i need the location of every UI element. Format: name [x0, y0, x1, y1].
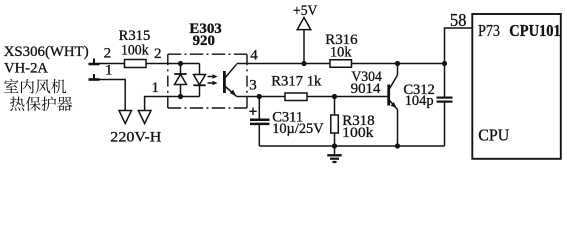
svg-text:9014: 9014 — [351, 81, 381, 97]
V304 labels — [351, 69, 383, 97]
capacitor C312 — [437, 64, 453, 147]
CPU101 box — [472, 14, 561, 159]
CPU labels — [478, 21, 561, 145]
transistor V304 — [389, 64, 398, 147]
connector XS306 label — [4, 44, 89, 76]
svg-text:CPU101: CPU101 — [509, 21, 561, 40]
connector XS306 pin 2 contact — [89, 59, 100, 65]
E303 label — [189, 21, 221, 49]
wire R317 to base node — [307, 96, 335, 98]
R315 value labels — [119, 28, 151, 58]
light arrow upper — [208, 74, 218, 79]
wire R315 to opto pin2 — [146, 63, 168, 65]
opto LED bottom rail — [168, 96, 200, 98]
node base junction — [332, 94, 337, 99]
node +5V junction — [301, 61, 306, 66]
svg-text:XS306(WHT): XS306(WHT) — [4, 44, 89, 60]
svg-text:10k: 10k — [330, 44, 352, 60]
svg-text:P73: P73 — [478, 21, 500, 40]
node collector junction — [395, 61, 400, 66]
optocoupler E303 dashed box — [168, 54, 247, 108]
capacitor C311 — [249, 97, 269, 147]
light arrow lower — [208, 81, 218, 86]
svg-text:R317 1k: R317 1k — [271, 74, 322, 90]
resistor R316 — [330, 60, 352, 68]
svg-text:220V-H: 220V-H — [110, 130, 161, 146]
svg-text:VH-2A: VH-2A — [4, 60, 48, 76]
svg-text:2: 2 — [104, 46, 112, 62]
svg-text:10µ/25V: 10µ/25V — [272, 121, 324, 137]
wire opto pin4 to +5V node — [247, 63, 330, 65]
svg-text:58: 58 — [450, 10, 467, 30]
svg-text:1: 1 — [105, 63, 113, 79]
connector XS306 pin 1 contact — [89, 74, 100, 80]
wire opto pin1 to 220V-H arrow — [145, 97, 168, 111]
wire to CPU pin 58 — [445, 28, 473, 64]
bottom rail — [259, 145, 444, 147]
svg-text:1: 1 — [152, 80, 160, 96]
node emitter junction — [395, 143, 400, 148]
svg-text:2: 2 — [154, 46, 162, 62]
svg-text:100k: 100k — [342, 125, 374, 141]
+5V power arrow — [297, 18, 311, 64]
node LED bottom junction — [178, 94, 183, 99]
resistor R317 — [285, 93, 307, 101]
opto phototransistor — [224, 64, 247, 97]
220V-H arrow left — [119, 111, 132, 124]
label 室内风机 — [4, 79, 66, 94]
resistor R315 — [125, 60, 147, 68]
R316 labels — [325, 32, 358, 60]
node LED top junction — [178, 61, 183, 66]
220V-H arrow right — [138, 111, 151, 124]
R318 labels — [342, 113, 375, 141]
resistor R318 — [331, 97, 339, 147]
C311 labels — [272, 109, 324, 137]
node ground junction — [332, 143, 337, 148]
ground — [327, 146, 341, 162]
C312 labels — [403, 82, 434, 109]
wire opto pin3 to C311 node — [247, 96, 285, 98]
wire base node to V304 base — [335, 96, 389, 98]
svg-text:+5V: +5V — [293, 3, 318, 19]
svg-text:CPU: CPU — [478, 126, 509, 145]
node C311 junction — [257, 94, 262, 99]
opto LED top rail — [168, 63, 200, 65]
svg-text:100k: 100k — [121, 43, 149, 59]
wire R316 to collector node to C312 node — [352, 63, 445, 65]
opto LED D2 (cathode down) — [193, 64, 205, 97]
svg-text:104p: 104p — [405, 93, 434, 109]
svg-text:3: 3 — [249, 78, 256, 94]
wire pin2 to R315 — [100, 63, 125, 65]
opto LED D1 (cathode up) — [174, 64, 186, 97]
svg-text:4: 4 — [250, 48, 258, 64]
node C312/CPU junction — [442, 61, 447, 66]
label 热保护器 — [10, 96, 72, 111]
svg-text:920: 920 — [193, 33, 215, 49]
wire pin1 to 220V-H arrow — [100, 80, 126, 111]
